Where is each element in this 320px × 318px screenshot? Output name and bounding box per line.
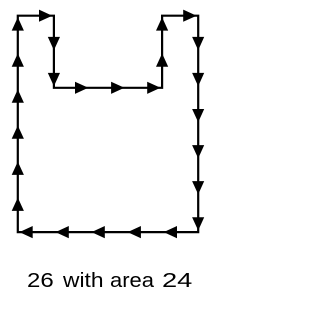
- caption text: "area": [110, 269, 154, 293]
- arrowhead: notch-bottom right arrow 2: [111, 82, 124, 94]
- arrowhead: right-side down arrow 4: [192, 145, 204, 158]
- arrowhead: notch-bottom right arrow 1: [75, 82, 88, 94]
- arrowhead: left-side up arrow 4: [12, 89, 24, 102]
- arrowhead: notch-left down arrow 1: [48, 37, 60, 50]
- caption text: "24": [162, 269, 192, 293]
- arrowhead: left-side up arrow 6: [12, 17, 24, 30]
- arrowhead: bottom left arrow 4: [56, 226, 69, 238]
- arrowhead: left-side up arrow 5: [12, 53, 24, 66]
- arrowhead: right-side down arrow 2: [192, 73, 204, 86]
- arrowhead: right-side down arrow 5: [192, 181, 204, 194]
- arrowhead: bottom left arrow 2: [128, 226, 141, 238]
- arrowhead: notch-bottom right arrow 3: [147, 82, 160, 94]
- arrowhead: bottom left arrow 1: [164, 226, 177, 238]
- arrowhead: left-side up arrow 2: [12, 162, 24, 175]
- arrowhead: right-side down arrow 1: [192, 37, 204, 50]
- arrowhead: right-side down arrow 3: [192, 109, 204, 122]
- arrowhead: notch-right up arrow 1: [156, 53, 168, 66]
- arrowhead: notch-right up arrow 2: [156, 17, 168, 30]
- arrowhead: right-side down arrow 6: [192, 217, 204, 230]
- arrowhead: top-left right arrow: [39, 10, 52, 22]
- arrowhead: bottom left arrow 3: [92, 226, 105, 238]
- polygon outline (perimeter path of U-shape, 5x6 unit grid with 3x2 notch): [18, 16, 198, 232]
- arrowhead: top-right right arrow: [183, 10, 196, 22]
- caption text: "with": [63, 269, 104, 293]
- arrowhead: left-side up arrow 3: [12, 126, 24, 139]
- arrowhead: notch-left down arrow 2: [48, 73, 60, 86]
- arrowhead: left-side up arrow 1: [12, 198, 24, 211]
- arrowhead: bottom left arrow 5: [19, 226, 32, 238]
- caption text: "26": [27, 269, 54, 293]
